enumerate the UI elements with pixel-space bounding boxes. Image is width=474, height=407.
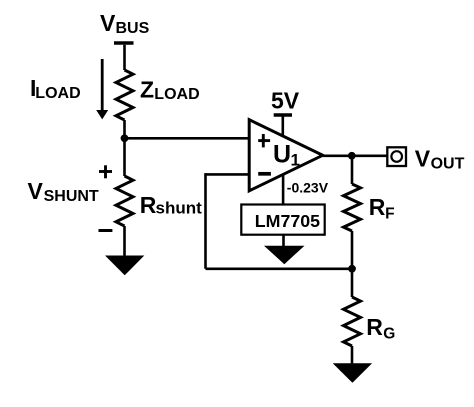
current arrow ILOAD: [96, 59, 108, 119]
label RF: [369, 194, 395, 222]
svg-text:LOAD: LOAD: [154, 86, 199, 103]
svg-text:OUT: OUT: [431, 156, 465, 173]
svg-text:BUS: BUS: [116, 20, 150, 37]
resistor ZLOAD: [116, 70, 133, 120]
label VSHUNT: [28, 178, 99, 205]
junction feedback node: [348, 265, 356, 273]
wire RF to feedback node: [351, 231, 354, 269]
wire VBUS to ZLOAD: [123, 45, 126, 70]
resistor RF: [344, 184, 361, 231]
svg-text:-0.23V: -0.23V: [287, 180, 329, 196]
label RG: [366, 314, 395, 342]
resistor Rshunt: [116, 176, 133, 226]
wire feedback node to RG: [351, 269, 354, 297]
svg-text:V: V: [415, 146, 431, 172]
label ZLOAD: [140, 76, 200, 103]
svg-text:V: V: [28, 178, 44, 204]
wire RG to ground: [351, 346, 354, 365]
ground under Rshunt: [105, 256, 144, 276]
junction output node: [348, 152, 356, 160]
label VOUT: [415, 146, 465, 173]
minus sign VSHUNT: [99, 229, 113, 232]
node VBUS label: [100, 10, 150, 37]
plus sign VSHUNT: [99, 165, 112, 178]
wire feedback to op-amp - input: [206, 173, 250, 176]
wire op-amp V- pin to LM7705: [282, 174, 285, 205]
svg-text:G: G: [383, 326, 395, 343]
regulator LM7705: [241, 205, 324, 235]
label U1: [273, 141, 300, 170]
svg-text:5V: 5V: [271, 88, 300, 114]
wire Rshunt to ground: [123, 226, 126, 257]
svg-text:SHUNT: SHUNT: [44, 188, 99, 205]
ground under LM7705: [264, 246, 305, 265]
ground under RG: [333, 363, 372, 383]
junction shunt node: [121, 134, 129, 142]
wire shunt node to op-amp + input: [125, 137, 250, 140]
svg-text:R: R: [140, 192, 157, 218]
power terminal VBUS: [114, 41, 134, 45]
svg-text:V: V: [100, 10, 116, 36]
wire ZLOAD to Rshunt: [123, 120, 126, 176]
wire LM7705 to ground: [282, 235, 285, 247]
wire output node to RF: [351, 156, 354, 184]
svg-text:R: R: [366, 314, 383, 340]
power terminal 5V: [274, 113, 292, 117]
svg-text:1: 1: [291, 151, 300, 170]
svg-text:LOAD: LOAD: [35, 85, 80, 102]
op-amp + input marker: [258, 134, 270, 147]
resistor RG: [344, 297, 361, 346]
op-amp U1: [249, 120, 323, 191]
svg-text:Z: Z: [140, 76, 154, 102]
op-amp - input marker: [258, 172, 271, 176]
wire feedback vertical: [204, 173, 207, 269]
svg-text:LM7705: LM7705: [255, 211, 320, 231]
label Rshunt: [140, 192, 202, 218]
svg-text:shunt: shunt: [156, 199, 203, 218]
terminal VOUT: [387, 147, 406, 166]
wire 5V to op-amp V+ pin: [281, 117, 284, 138]
svg-text:U: U: [273, 141, 291, 169]
wire op-amp output to VOUT terminal: [323, 155, 388, 158]
wire feedback bottom horizontal: [206, 267, 353, 270]
svg-text:F: F: [385, 205, 394, 222]
label ILOAD: [30, 75, 81, 102]
svg-text:R: R: [369, 194, 386, 220]
